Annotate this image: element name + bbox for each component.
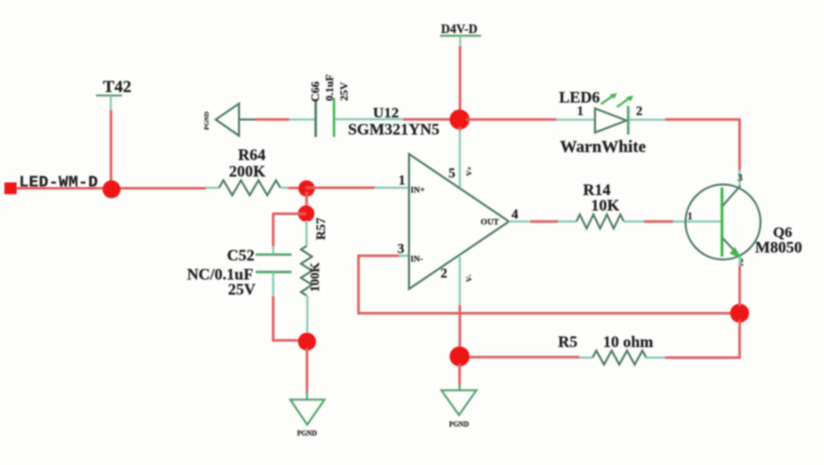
wire junction C down to op-amp V+ <box>459 127 462 132</box>
lead transistor base <box>673 221 721 223</box>
wire junction F down to PGND3 <box>306 348 309 393</box>
wire LED to transistor collector (horizontal) <box>665 118 741 121</box>
resistor R64 <box>206 180 288 195</box>
svg-text:OUT: OUT <box>481 217 500 227</box>
capacitor C66 <box>316 98 334 137</box>
svg-text:3: 3 <box>738 173 743 184</box>
ground PGND3 (below R57) <box>290 391 324 438</box>
svg-text:U12: U12 <box>373 106 399 122</box>
wire C52 bottom to junction F <box>272 296 275 341</box>
resistor R57 <box>301 221 312 334</box>
lead emitter <box>739 258 741 267</box>
wire C66 to junction C <box>335 118 403 120</box>
svg-text:V+: V+ <box>465 166 474 176</box>
lead op-amp pin5 V+ <box>459 130 461 187</box>
wire LED-WM-D to R64 (net LED-WM-D) <box>16 187 206 190</box>
op-amp U12 <box>409 154 509 289</box>
lead op-amp pin1 IN+ <box>375 187 409 189</box>
wire junction B to op-amp pin1 <box>306 187 376 190</box>
ground PGND1 (top-left) <box>204 104 258 136</box>
lead into C66 left plate <box>289 119 315 121</box>
svg-text:1: 1 <box>688 212 693 223</box>
svg-text:T42: T42 <box>103 77 131 96</box>
svg-text:IN-: IN- <box>411 254 423 264</box>
svg-text:2: 2 <box>636 103 643 118</box>
svg-text:100K: 100K <box>307 262 322 293</box>
svg-text:C66: C66 <box>308 81 322 102</box>
wire junction E down <box>738 320 741 359</box>
svg-text:R5: R5 <box>558 334 578 351</box>
wire OUT to R14 <box>530 220 559 223</box>
svg-text:V-: V- <box>465 274 474 282</box>
ground PGND2 (below op-amp) <box>441 384 476 429</box>
svg-text:M8050: M8050 <box>755 240 802 257</box>
junction B (R64 / op-amp IN+) <box>298 180 314 196</box>
junction B2 (R57 / C52 tap) <box>298 205 314 221</box>
wire red segment to junction C <box>403 118 452 121</box>
lead into IN- <box>399 255 408 257</box>
svg-text:200K: 200K <box>229 164 266 181</box>
svg-text:PGND: PGND <box>297 430 317 438</box>
svg-text:0.1uF: 0.1uF <box>324 74 336 101</box>
svg-text:PGND: PGND <box>449 421 469 429</box>
wire R5 left to junction D <box>466 356 579 359</box>
node LED-WM-D terminal square <box>4 182 16 194</box>
wire PGND1 to C66 <box>256 118 290 121</box>
svg-text:WarnWhite: WarnWhite <box>560 137 646 156</box>
junction A (LED-WM-D / T42) <box>103 180 121 198</box>
svg-text:3: 3 <box>398 241 405 256</box>
svg-text:25V: 25V <box>228 282 256 299</box>
svg-text:2: 2 <box>441 266 448 281</box>
wire junction B2 left to C52 branch <box>272 213 306 216</box>
testpoint T42 stub <box>110 96 112 111</box>
wire junction D down to PGND2 <box>458 364 461 386</box>
svg-text:5: 5 <box>449 166 456 181</box>
lead LED pin2 <box>629 119 666 121</box>
wire junction B down to junction B2 <box>305 192 308 210</box>
svg-text:PGND: PGND <box>204 111 211 130</box>
resistor R14 <box>558 215 645 229</box>
wire R5 right segment <box>664 356 741 359</box>
svg-text:R14: R14 <box>583 182 611 199</box>
lead collector <box>739 170 741 186</box>
wire junction C to LED pin1 <box>466 118 557 121</box>
wire down to collector <box>738 120 741 172</box>
svg-text:R64: R64 <box>238 147 266 164</box>
LED LED6 <box>595 93 634 135</box>
capacitor C52 <box>256 246 292 297</box>
wire R14 to transistor base <box>644 220 674 223</box>
svg-text:1: 1 <box>399 173 406 188</box>
lead op-amp pin3 IN- <box>398 255 408 257</box>
wire T42 down to junction A <box>110 110 113 185</box>
junction F (C52 / R57 / PGND) <box>298 333 316 351</box>
wire C52 branch down <box>272 214 275 247</box>
junction C (D4V-D / C66 / op-amp V+ / LED) <box>450 110 470 130</box>
svg-text:10 ohm: 10 ohm <box>603 334 654 351</box>
junction D (V- / R5 / PGND) <box>450 346 470 366</box>
svg-text:LED-WM-D: LED-WM-D <box>19 174 98 192</box>
lead op-amp pin4 OUT <box>509 221 531 223</box>
svg-text:4: 4 <box>512 207 519 222</box>
lead LED pin1 <box>556 119 595 121</box>
wire op-amp V- down to junction D <box>459 305 462 350</box>
testpoint T42 tick <box>96 95 122 97</box>
lead op-amp pin2 V- <box>459 257 461 306</box>
svg-text:1: 1 <box>577 103 584 118</box>
power D4V-D label <box>440 22 481 47</box>
wire feedback: IN- corner <box>359 256 740 314</box>
svg-text:SGM321YN5: SGM321YN5 <box>348 122 440 139</box>
svg-text:D4V-D: D4V-D <box>441 22 478 36</box>
svg-text:10K: 10K <box>591 198 620 215</box>
svg-text:IN+: IN+ <box>411 185 425 195</box>
resistor R5 <box>578 351 665 365</box>
wire emitter down to junction E <box>738 266 741 306</box>
wire D4V-D down to junction C <box>459 46 462 112</box>
svg-text:C52: C52 <box>227 248 255 265</box>
junction E (emitter / feedback / R5) <box>730 304 749 323</box>
wire R64 to junction B <box>288 187 302 190</box>
transistor Q6 <box>686 173 761 269</box>
svg-text:25V: 25V <box>339 82 351 101</box>
wire C52 corner to junction F <box>272 339 300 342</box>
svg-text:R57: R57 <box>313 217 328 240</box>
